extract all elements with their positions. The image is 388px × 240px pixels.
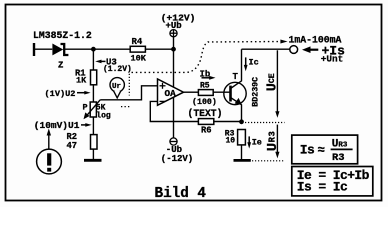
svg-text:Ic: Ic xyxy=(249,57,259,67)
wire diode to node A xyxy=(63,48,130,50)
resistor R5 body xyxy=(198,90,213,96)
wire R1 to pot xyxy=(92,85,94,102)
terminal -Ub circle-minus xyxy=(170,138,177,145)
wire R4 to node B xyxy=(145,48,173,50)
measure arrow UR3 xyxy=(276,125,278,155)
svg-text:BD239C: BD239C xyxy=(252,77,261,107)
terminal output open circle xyxy=(290,46,298,54)
wire op-amp output to R5 xyxy=(184,91,199,93)
wire op-amp minus input feedback xyxy=(150,101,198,121)
label Ie with arrow xyxy=(248,136,250,144)
measure arrow Uce xyxy=(276,50,278,114)
signal source circle with ! xyxy=(37,149,62,174)
wire anode xyxy=(34,48,52,50)
svg-text:Is: Is xyxy=(300,143,315,158)
svg-text:10: 10 xyxy=(226,136,236,145)
border frame xyxy=(6,5,382,201)
wire +Ub to node B and down through op-amp to -Ub xyxy=(173,37,175,138)
dotted emitter level xyxy=(245,122,285,124)
svg-text:Ie: Ie xyxy=(252,138,262,148)
diode D1 cathode bar xyxy=(61,44,69,55)
wire R5 to base xyxy=(213,91,230,93)
Ur bubble xyxy=(110,78,124,92)
transistor Q1 circle xyxy=(224,82,246,104)
dotted Ur vertical xyxy=(128,74,130,96)
svg-text:(-12V): (-12V) xyxy=(161,154,193,164)
resistor R1 body xyxy=(91,70,97,85)
resistor R6 body xyxy=(198,119,213,125)
transistor base bar xyxy=(229,86,232,102)
wire R6 to emitter node xyxy=(214,121,242,123)
terminal +Ub circle-plus xyxy=(170,30,177,37)
transistor emitter with arrow xyxy=(231,98,242,123)
svg-text:Is = Ic: Is = Ic xyxy=(297,180,348,195)
svg-text:T: T xyxy=(233,72,239,82)
resistor R2 body xyxy=(91,135,98,150)
formula box 2 xyxy=(292,167,373,196)
svg-text:47: 47 xyxy=(67,141,78,151)
dotted ground level xyxy=(252,160,285,162)
resistor R3 body xyxy=(238,130,246,145)
svg-text:LM385Z-1.2: LM385Z-1.2 xyxy=(33,30,92,41)
wire R3 to ground xyxy=(241,145,243,159)
svg-text:(TEXT): (TEXT) xyxy=(188,108,223,119)
wire wiper to op-amp plus input xyxy=(100,86,157,100)
svg-text:log: log xyxy=(96,111,111,120)
wire R2 to ground xyxy=(92,149,94,159)
dots near pot xyxy=(121,106,130,108)
ground right xyxy=(234,159,251,162)
potentiometer P body xyxy=(90,102,96,117)
op-amp U1 triangle xyxy=(158,79,184,105)
svg-text:(1.2V): (1.2V) xyxy=(103,65,132,74)
svg-text:≈: ≈ xyxy=(318,144,326,158)
label Uce rotated xyxy=(266,73,281,91)
resistor R4 body xyxy=(130,46,145,52)
svg-text:1K: 1K xyxy=(76,76,87,86)
wire collector rail to output terminal xyxy=(242,48,291,50)
svg-text:(100): (100) xyxy=(192,97,217,107)
svg-text:10K: 10K xyxy=(131,53,147,63)
wire pot to R2 xyxy=(92,117,94,135)
node A junction dot xyxy=(91,47,96,52)
label Ic with arrow xyxy=(245,57,247,66)
svg-text:R3: R3 xyxy=(332,152,345,164)
diode D1 (Z) left terminal bar xyxy=(33,43,35,56)
node B junction dot xyxy=(171,47,176,52)
svg-text:P: P xyxy=(83,102,88,112)
wire node A down to R1 xyxy=(92,49,94,70)
arrow Is big left arrow xyxy=(305,49,318,51)
signal source arrow xyxy=(48,134,50,150)
svg-text:+Unt: +Unt xyxy=(321,54,344,65)
op-amp plus sign xyxy=(160,83,166,102)
svg-text:Bild 4: Bild 4 xyxy=(155,186,207,202)
diode D1 zener triangle xyxy=(52,44,63,56)
dotted Is path xyxy=(132,42,282,73)
node emitter junction dot xyxy=(239,119,244,124)
transistor collector xyxy=(231,49,242,88)
svg-text:R6: R6 xyxy=(201,125,212,135)
svg-text:Ur: Ur xyxy=(112,83,121,91)
svg-text:(1V)U2: (1V)U2 xyxy=(45,89,76,99)
svg-text:(10mV)U1: (10mV)U1 xyxy=(34,120,80,131)
potentiometer wiper arrow xyxy=(87,100,101,116)
formula box 1 xyxy=(292,135,358,164)
svg-text:Z: Z xyxy=(58,61,63,71)
svg-text:OA: OA xyxy=(165,88,177,99)
label UR3 rotated xyxy=(265,131,281,151)
label U3 with arrow xyxy=(95,60,101,64)
ground left xyxy=(84,159,102,162)
